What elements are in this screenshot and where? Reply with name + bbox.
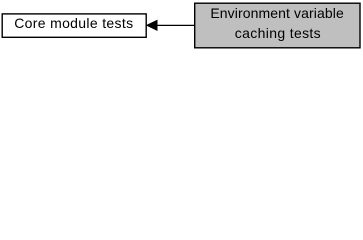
node N2: Environment variable caching tests [195, 3, 360, 48]
edge N2 -> N1: wire [157, 24, 195, 26]
edge N2 -> N1: arrowhead [147, 20, 157, 30]
svg-text:Environment variable: Environment variable [210, 5, 344, 21]
svg-text:Core module tests: Core module tests [14, 15, 133, 31]
node N1: Core module tests [2, 14, 146, 37]
svg-text:caching tests: caching tests [235, 25, 321, 41]
